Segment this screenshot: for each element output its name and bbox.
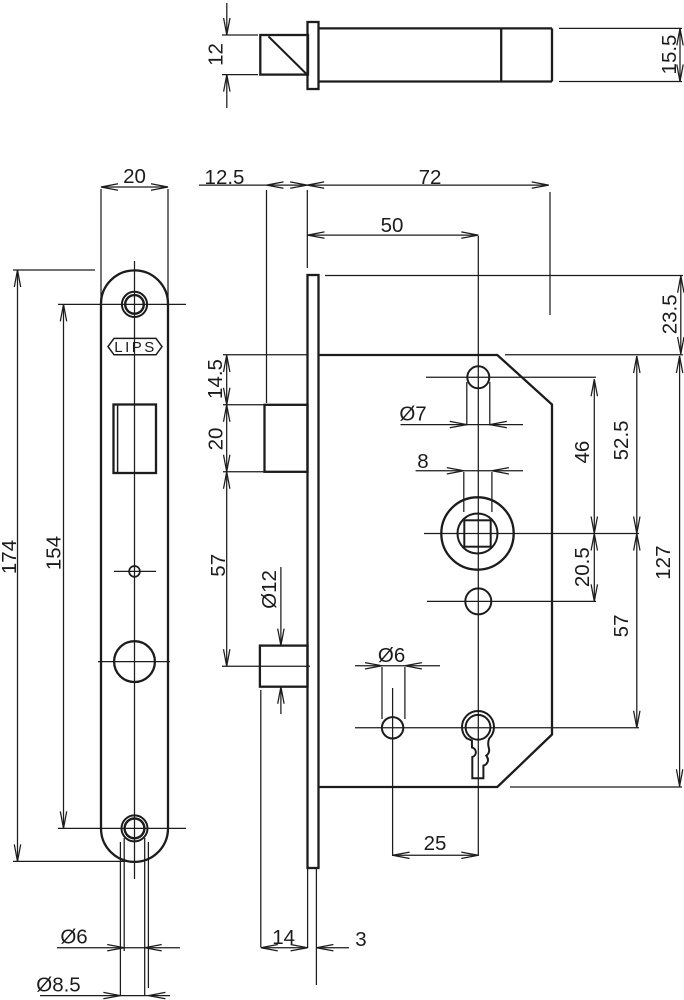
- svg-text:8: 8: [417, 450, 428, 473]
- svg-text:15.5: 15.5: [658, 35, 681, 75]
- svg-text:Ø6: Ø6: [378, 644, 405, 667]
- svg-text:20: 20: [123, 165, 146, 188]
- svg-text:20: 20: [204, 428, 227, 451]
- svg-text:57: 57: [207, 554, 230, 577]
- svg-text:57: 57: [610, 614, 633, 637]
- svg-text:127: 127: [652, 545, 675, 579]
- svg-text:14.5: 14.5: [204, 359, 227, 399]
- svg-text:Ø6: Ø6: [60, 926, 87, 949]
- svg-text:154: 154: [42, 536, 65, 570]
- svg-text:52.5: 52.5: [610, 420, 633, 460]
- svg-text:14: 14: [272, 926, 295, 949]
- svg-text:23.5: 23.5: [659, 294, 682, 334]
- svg-text:25: 25: [424, 832, 447, 855]
- svg-text:72: 72: [419, 166, 442, 189]
- svg-text:20.5: 20.5: [571, 547, 594, 587]
- svg-text:12: 12: [204, 43, 227, 66]
- svg-text:46: 46: [571, 441, 594, 464]
- svg-text:50: 50: [381, 214, 404, 237]
- svg-text:174: 174: [0, 540, 21, 574]
- svg-text:LIPS: LIPS: [114, 339, 157, 356]
- svg-text:Ø12: Ø12: [258, 570, 281, 609]
- svg-text:Ø8.5: Ø8.5: [36, 974, 80, 997]
- svg-text:12.5: 12.5: [205, 166, 245, 189]
- svg-text:Ø7: Ø7: [399, 403, 426, 426]
- svg-text:3: 3: [355, 928, 366, 951]
